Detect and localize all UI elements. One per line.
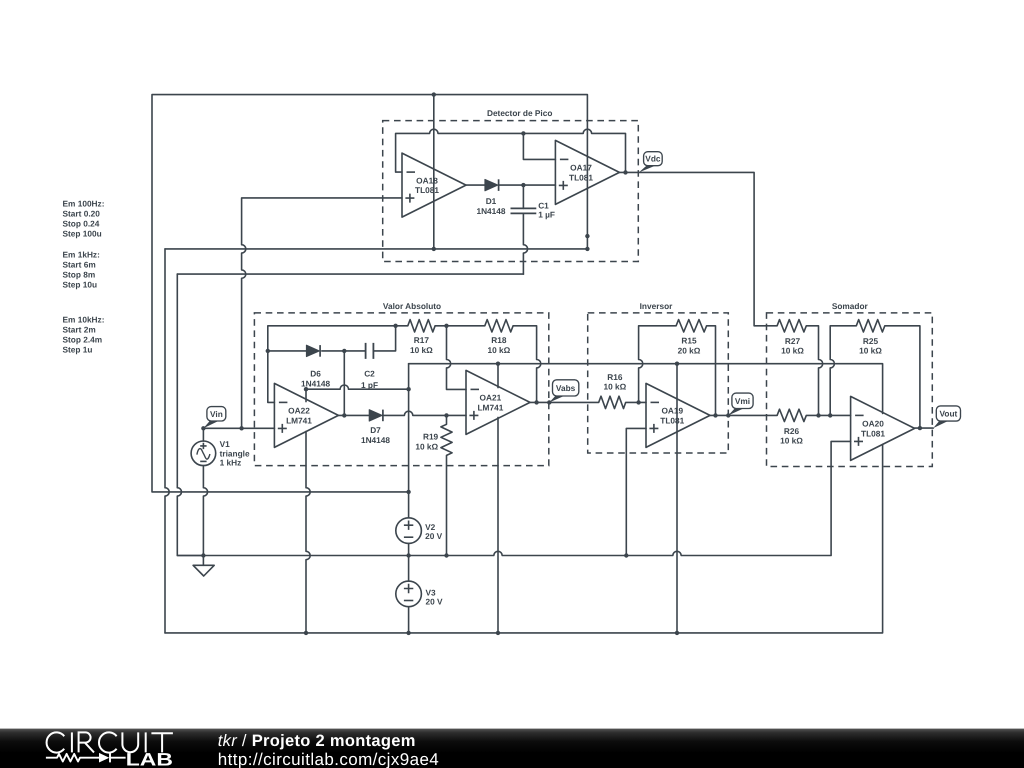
svg-text:LAB: LAB	[126, 750, 173, 768]
wire OA18 supply vertical	[433, 95, 435, 249]
svg-text:OA19: OA19	[661, 406, 683, 416]
svg-text:Stop 0.24: Stop 0.24	[63, 218, 100, 228]
node R19 ground	[444, 553, 448, 557]
svg-text:R19: R19	[423, 431, 439, 441]
resistor R16 10 kΩ	[599, 396, 626, 408]
box Somador	[767, 313, 933, 467]
svg-text:OA17: OA17	[570, 163, 592, 173]
node D6 / C2 junction	[342, 349, 346, 353]
svg-text:10 kΩ: 10 kΩ	[603, 382, 626, 392]
svg-text:1N4148: 1N4148	[301, 378, 330, 388]
CircuitLab logo CIRCUIT (custom thin letters)	[47, 732, 173, 752]
wire R27 to summing node	[806, 326, 822, 416]
wire OA22 inverting input to R17	[268, 326, 408, 403]
svg-text:Vin: Vin	[210, 409, 223, 419]
node OA19 V+ on rail	[675, 362, 679, 366]
svg-text:Em 100Hz:: Em 100Hz:	[63, 198, 105, 208]
wire V3 top lead	[408, 556, 410, 582]
wire OA22 output to D7	[338, 414, 369, 416]
wire OA18 inverting feedback to OA17 output	[396, 129, 626, 172]
wire OA21 positive supply stub	[497, 364, 499, 388]
wire C1 ground trunk (left)	[177, 274, 203, 555]
wire negative-supply upper rail (detector bottom)	[165, 248, 587, 250]
svg-text:10 kΩ: 10 kΩ	[410, 345, 433, 355]
node R17 / R18	[444, 324, 448, 328]
wire C2 to R17 node	[373, 326, 395, 351]
node Vmi tap	[726, 413, 730, 417]
node OA22 V+ to supply riser	[406, 387, 410, 391]
svg-text:10 kΩ: 10 kΩ	[415, 441, 438, 451]
node OA17 output feedback	[623, 170, 627, 174]
node OA21 output feedback	[534, 400, 538, 404]
svg-text:OA21: OA21	[480, 393, 502, 403]
svg-text:10 kΩ: 10 kΩ	[781, 346, 804, 356]
box Valor Absoluto	[254, 313, 548, 466]
wire R26 to OA20 inverting input	[806, 414, 850, 416]
source V2 20V	[396, 518, 422, 544]
node OA22 V- rail	[304, 631, 308, 635]
svg-text:1N4148: 1N4148	[476, 206, 505, 216]
wire V1 top lead	[202, 428, 204, 441]
wire R19 top lead	[446, 415, 448, 424]
svg-text:10 kΩ: 10 kΩ	[487, 345, 510, 355]
capacitor C1 1uF	[511, 208, 537, 213]
svg-text:R17: R17	[414, 335, 430, 345]
diode D7 1N4148	[369, 410, 382, 421]
svg-text:C2: C2	[364, 369, 375, 379]
svg-text:OA18: OA18	[416, 175, 438, 185]
annotation Em 1kHz block	[63, 249, 100, 289]
svg-text:http://circuitlab.com/cjx9ae4: http://circuitlab.com/cjx9ae4	[218, 750, 439, 768]
svg-text:1 kHz: 1 kHz	[220, 457, 242, 467]
svg-text:OA22: OA22	[288, 406, 310, 416]
wire V1 bottom lead to ground	[203, 466, 207, 556]
svg-text:LM741: LM741	[477, 402, 503, 412]
svg-text:R27: R27	[785, 336, 801, 346]
wire positive supply riser	[408, 364, 410, 492]
net flag Vmi	[728, 393, 753, 415]
svg-text:1 µF: 1 µF	[538, 209, 555, 219]
resistor R18 10 kΩ	[485, 320, 513, 332]
node Vabs tap	[547, 400, 551, 404]
node C2 / R17	[393, 324, 397, 328]
node V2+ supply tee	[406, 490, 410, 494]
svg-text:20 V: 20 V	[426, 596, 444, 606]
node D1 / C1 / OA17+	[521, 183, 525, 187]
wire R25 feedback left riser	[830, 326, 856, 416]
svg-text:R26: R26	[784, 426, 800, 436]
svg-text:10 kΩ: 10 kΩ	[859, 346, 882, 356]
svg-text:Start 2m: Start 2m	[63, 324, 96, 334]
node V+ rail / OA18 supply	[432, 92, 436, 96]
wire OA19 noninverting input to ground	[626, 428, 646, 555]
node OA22 output feedback	[342, 413, 346, 417]
node OA17 V- lead	[585, 234, 589, 238]
node ground tee	[201, 553, 205, 557]
wire R19 bottom lead to ground rail	[446, 455, 448, 555]
box Inversor	[588, 313, 729, 453]
svg-text:D6: D6	[310, 369, 321, 379]
wire R15 right lead to output	[707, 326, 716, 416]
wire negative supply bottom rail to OA20	[165, 444, 883, 633]
diode D1 1N4148	[485, 180, 498, 191]
wire ground symbol stub	[202, 556, 204, 566]
resistor R25 10 kΩ	[856, 320, 885, 332]
svg-text:Vout: Vout	[939, 409, 957, 419]
svg-text:tkr / Projeto 2 montagem: tkr / Projeto 2 montagem	[218, 732, 416, 750]
svg-text:Step 1u: Step 1u	[63, 344, 93, 354]
node Vin tap V1+	[201, 426, 205, 430]
node OA19+ ground	[624, 553, 628, 557]
svg-text:20 V: 20 V	[425, 531, 443, 541]
net flag Vin	[203, 407, 225, 429]
wire ground rail to OA20 noninverting input	[177, 441, 850, 555]
node R25 summing	[828, 413, 832, 417]
svg-text:1N4148: 1N4148	[361, 435, 390, 445]
diode D6 1N4148	[307, 345, 320, 356]
U4 op-amp OA21 OA21 LM741	[466, 370, 530, 434]
ground symbol	[193, 565, 214, 576]
wire R17/R18 node to OA21 inverting input	[447, 326, 467, 390]
wire D6 branch from inverting node	[268, 350, 307, 352]
node V3- rail	[406, 631, 410, 635]
wire R16 to OA19 inverting input	[626, 401, 646, 403]
resistor R26 10 kΩ	[777, 409, 806, 421]
svg-text:R18: R18	[491, 335, 507, 345]
svg-text:Vabs: Vabs	[556, 383, 576, 393]
net flag Vout	[933, 406, 960, 428]
wire OA21 output / Vabs to R16	[530, 401, 599, 403]
node OA22 inv branch D6	[266, 349, 270, 353]
node V2- V3+ ground	[406, 553, 410, 557]
U3 op-amp OA22 OA22 LM741	[274, 383, 338, 447]
wire left negative-supply trunk	[165, 249, 169, 633]
svg-text:OA20: OA20	[862, 419, 884, 429]
svg-text:Detector de Pico: Detector de Pico	[487, 108, 552, 118]
node R27 summing	[816, 413, 820, 417]
resistor R27 10 kΩ	[777, 320, 806, 332]
svg-text:Stop 2.4m: Stop 2.4m	[63, 334, 103, 344]
annotation Em 10kHz block	[63, 314, 105, 354]
wire feedback junction down to OA22 output	[343, 351, 345, 416]
svg-text:Stop 8m: Stop 8m	[63, 269, 96, 279]
wire C1 lower lead with hop	[523, 213, 527, 274]
CircuitLab logo resistor-diode glyph	[46, 753, 126, 762]
wire C1 top lead	[522, 185, 524, 208]
svg-text:Somador: Somador	[832, 301, 869, 311]
svg-text:Vmi: Vmi	[735, 396, 750, 406]
resistor R19 10 kOhm (vertical)	[441, 424, 452, 455]
wire C1 ground horizontal run	[177, 273, 523, 275]
wire V3 bottom lead	[408, 607, 410, 633]
svg-text:LM741: LM741	[286, 415, 312, 425]
wire V2 bottom lead	[408, 543, 410, 555]
wire Vdc output run to R27	[619, 172, 777, 325]
svg-text:TL081: TL081	[861, 428, 885, 438]
node feedback / OA17 inv	[521, 131, 525, 135]
wire R18 to OA21 output node	[513, 326, 541, 403]
svg-text:TL081: TL081	[569, 172, 593, 182]
node OA21 V+ on rail	[496, 362, 500, 366]
node OA18 V- on rail	[432, 247, 436, 251]
svg-text:Valor Absoluto: Valor Absoluto	[383, 301, 441, 311]
node D7 / R19 / OA21+	[444, 413, 448, 417]
svg-text:Start 6m: Start 6m	[63, 259, 96, 269]
capacitor C2 1pF	[366, 343, 374, 359]
wire OA20 output to Vout	[915, 427, 934, 429]
svg-text:R15: R15	[681, 336, 697, 346]
node OA20 output feedback	[918, 426, 922, 430]
wire D1 to OA17 noninverting input	[499, 184, 556, 186]
node R16 / R15 / OA19 inv	[636, 400, 640, 404]
box Detector de Pico	[383, 121, 639, 262]
svg-text:Inversor: Inversor	[640, 301, 674, 311]
wire OA19 output / Vmi to R26	[710, 414, 777, 416]
wire OA17 inverting input branch	[523, 133, 555, 159]
wire OA22 negative supply stub	[306, 431, 310, 633]
U6 op-amp OA20 OA20 TL081	[851, 396, 915, 460]
node OA19 output feedback	[713, 413, 717, 417]
resistor R17 10 kΩ	[408, 320, 435, 332]
source V3 20V	[396, 581, 422, 607]
wire top supply rail and left trunk to V2	[152, 95, 587, 492]
net flag Vdc	[639, 152, 662, 173]
svg-text:1 pF: 1 pF	[361, 380, 378, 390]
net flag Vabs	[549, 380, 579, 403]
wire D7 to OA21 noninverting input	[383, 411, 466, 415]
resistor R15 20 kΩ	[676, 320, 707, 332]
svg-text:Vdc: Vdc	[645, 154, 661, 164]
wire R15 feedback left riser	[639, 326, 677, 403]
source V1 triangle 1kHz	[191, 441, 216, 466]
node OA22 V+ stub	[304, 387, 308, 391]
svg-text:D1: D1	[486, 196, 497, 206]
svg-text:TL081: TL081	[660, 415, 684, 425]
node Vin to OA18+	[239, 426, 243, 430]
svg-text:Em 1kHz:: Em 1kHz:	[63, 249, 100, 259]
svg-text:Step 10u: Step 10u	[63, 279, 98, 289]
U2 op-amp OA17 OA17 TL081	[555, 140, 619, 204]
wire Vin riser to OA18 noninverting input	[242, 198, 402, 428]
wire OA22 V+ pin run to supply riser	[306, 385, 409, 402]
svg-text:10 kΩ: 10 kΩ	[780, 436, 803, 446]
wire R17 to R18	[435, 325, 485, 327]
svg-text:Em 10kHz:: Em 10kHz:	[63, 314, 105, 324]
svg-text:R16: R16	[607, 372, 623, 382]
wire R25 right lead to output	[885, 326, 920, 428]
U1 op-amp OA18 OA18 TL081	[402, 153, 466, 217]
node rail end OA17 V-	[585, 247, 589, 251]
node OA19 V- rail	[675, 631, 679, 635]
annotation Em 100Hz block	[63, 198, 105, 238]
wire main positive supply rail	[409, 364, 883, 414]
wire Vin node to OA22 noninverting input	[203, 427, 274, 429]
wire OA18 output to D1	[466, 184, 485, 186]
wire V2 top lead	[408, 492, 410, 518]
U5 op-amp OA19 OA19 TL081	[646, 383, 710, 447]
svg-text:Step 100u: Step 100u	[63, 228, 102, 238]
svg-text:Start 0.20: Start 0.20	[63, 208, 101, 218]
svg-text:R25: R25	[863, 336, 879, 346]
wire OA21 negative supply lead	[497, 417, 499, 633]
svg-text:TL081: TL081	[415, 185, 439, 195]
svg-text:D7: D7	[370, 425, 381, 435]
node OA21 V- rail	[496, 631, 500, 635]
wire D6 to C2	[322, 350, 366, 352]
wire OA19 supply vertical	[676, 364, 678, 633]
svg-text:20 kΩ: 20 kΩ	[678, 345, 701, 355]
